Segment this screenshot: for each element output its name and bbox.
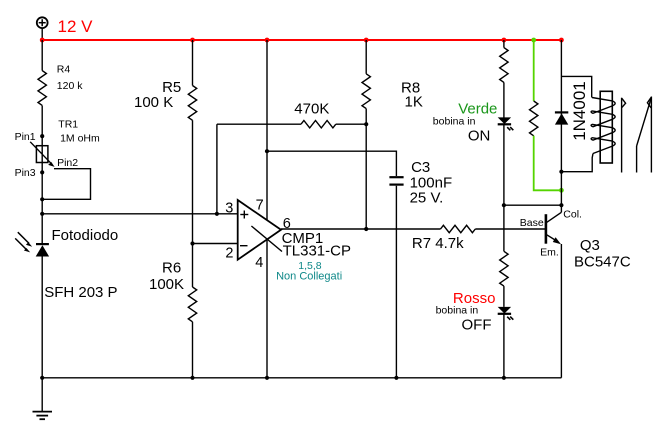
ground rail wire	[42, 377, 561, 379]
node pin3 wire junction dot	[40, 212, 44, 216]
svg-text:3: 3	[225, 201, 233, 217]
wire relay branch vertical	[560, 40, 562, 205]
svg-text:Base: Base	[520, 217, 544, 229]
node dot 12V at R8	[364, 38, 369, 43]
node dot 12V at green LED branch	[502, 38, 507, 43]
wire trimmer to photodiode	[41, 163, 43, 245]
svg-text:4: 4	[255, 255, 263, 271]
wire R8 top lead	[365, 40, 367, 74]
svg-text:BC547C: BC547C	[574, 254, 631, 271]
svg-text:ON: ON	[468, 128, 491, 145]
wire pin 4 to ground	[266, 240, 268, 378]
svg-text:Pin2: Pin2	[57, 157, 78, 169]
relay contact moving blade	[637, 97, 652, 173]
node green wire end dot	[559, 188, 564, 193]
node dot 12V at R4	[40, 38, 45, 43]
node wiper junction dot	[40, 197, 44, 201]
wire 470K feedback vertical	[216, 124, 218, 214]
svg-text:25 V.: 25 V.	[410, 190, 444, 207]
photodiode SFH 203 P	[15, 227, 118, 301]
wire collector link	[504, 204, 562, 206]
wire green LED branch top	[503, 40, 505, 48]
wire pin 7 supply	[266, 40, 268, 220]
transistor Q3	[520, 205, 631, 270]
svg-text:1M oHm: 1M oHm	[60, 133, 100, 145]
svg-text:Fotodiodo: Fotodiodo	[52, 227, 119, 244]
wire photodiode to ground rail	[41, 257, 43, 378]
wire supply stub	[41, 28, 43, 40]
wire to pin 3	[42, 213, 238, 215]
trimmer TR1	[15, 118, 100, 179]
svg-text:R4: R4	[57, 64, 71, 76]
node dot 12V at pin7	[265, 38, 270, 43]
node output junction dot	[364, 227, 368, 231]
svg-text:470K: 470K	[294, 100, 329, 117]
capacitor C3	[389, 159, 452, 207]
node red LED ground dot	[502, 376, 506, 380]
wire output to R7	[281, 228, 441, 230]
svg-text:100 K: 100 K	[134, 94, 173, 111]
wire C3 bottom to ground	[395, 186, 397, 378]
svg-text:7: 7	[256, 198, 264, 214]
wire resistor to green LED	[503, 82, 505, 117]
svg-text:SFH 203 P: SFH 203 P	[44, 284, 117, 301]
node dot 12V at R5	[190, 38, 195, 43]
resistor R6	[149, 259, 197, 321]
svg-text:bobina in: bobina in	[436, 305, 479, 317]
green relay wire lower	[534, 136, 562, 191]
wire 470K right lead	[336, 123, 366, 125]
node pin4 ground dot	[265, 376, 269, 380]
wire coil top lead	[561, 76, 591, 97]
svg-text:2: 2	[225, 246, 233, 262]
node collector link dot	[502, 203, 506, 207]
resistor red LED series	[500, 251, 508, 286]
wire coil bottom lead	[561, 154, 593, 172]
wire R6 bottom lead	[192, 322, 194, 378]
wire R5 to R6	[192, 120, 194, 287]
svg-text:Col.: Col.	[563, 209, 582, 221]
wire to C3 top	[267, 151, 396, 176]
resistor 470K	[294, 100, 335, 128]
svg-text:TL331-CP: TL331-CP	[283, 243, 351, 260]
svg-text:bobina in: bobina in	[433, 115, 476, 127]
wire emitter to ground	[560, 244, 562, 378]
relay coil	[591, 91, 615, 163]
wire R7 to base	[475, 228, 546, 230]
wire R8 bottom to output	[365, 109, 367, 229]
LED red	[498, 307, 514, 320]
node dot 12V at relay branch	[559, 38, 564, 43]
svg-text:TR1: TR1	[58, 118, 78, 130]
svg-text:Q3: Q3	[580, 237, 600, 254]
resistor R5	[134, 79, 197, 120]
wire R5 top lead	[192, 40, 194, 86]
op-amp comparator CMP1	[238, 200, 351, 260]
wire resistor to red LED	[503, 286, 505, 307]
svg-text:R6: R6	[162, 259, 181, 276]
svg-text:Pin3: Pin3	[15, 167, 36, 179]
node Pin3 dot	[40, 170, 44, 174]
node C3 ground dot	[394, 376, 398, 380]
wire green LED down through base wire	[503, 124, 505, 251]
svg-text:Pin1: Pin1	[15, 131, 36, 143]
node ground junction dot	[40, 376, 44, 380]
node R5/R6 pin2 junction dot	[190, 241, 194, 245]
svg-text:1K: 1K	[405, 93, 423, 110]
node dot 12V at green relay wire	[531, 38, 536, 43]
svg-text:Em.: Em.	[540, 247, 559, 259]
resistor R4	[38, 64, 83, 106]
green relay wire upper	[533, 40, 535, 101]
node coil bottom dot	[559, 170, 563, 174]
node feedback/pin3 dot	[215, 212, 219, 216]
svg-text:R7 4.7k: R7 4.7k	[412, 235, 464, 252]
resistor relay line	[530, 101, 538, 136]
svg-text:100K: 100K	[149, 276, 184, 293]
svg-text:12 V: 12 V	[58, 17, 94, 36]
wire 470K left lead	[217, 123, 301, 125]
node collector dot	[559, 203, 563, 207]
resistor green LED series	[500, 48, 508, 83]
wire to pin 2	[193, 243, 238, 245]
12V rail wire	[42, 39, 561, 41]
diode 1N4001	[555, 81, 589, 141]
ground	[33, 378, 53, 419]
resistor R8	[362, 74, 423, 111]
svg-text:1N4001: 1N4001	[570, 81, 589, 141]
svg-text:C3: C3	[411, 159, 430, 176]
node R6 ground dot	[190, 376, 194, 380]
wire R4 bottom lead	[41, 106, 43, 146]
node pin7/C3 junction dot	[265, 149, 269, 153]
wire red LED to ground	[503, 314, 505, 378]
relay contact fixed left	[622, 98, 626, 173]
wire trimmer wiper return	[42, 169, 90, 200]
note pins not connected	[276, 260, 342, 282]
node Pin1 dot	[40, 134, 44, 138]
resistor R7	[412, 225, 475, 252]
svg-text:Non Collegati: Non Collegati	[276, 271, 342, 283]
svg-text:120 k: 120 k	[57, 80, 83, 92]
wire R4 top lead	[41, 40, 43, 71]
LED green	[498, 117, 514, 130]
power terminal +12V	[37, 17, 48, 28]
node 470K/R8 junction dot	[364, 122, 368, 126]
svg-text:OFF: OFF	[462, 317, 492, 334]
